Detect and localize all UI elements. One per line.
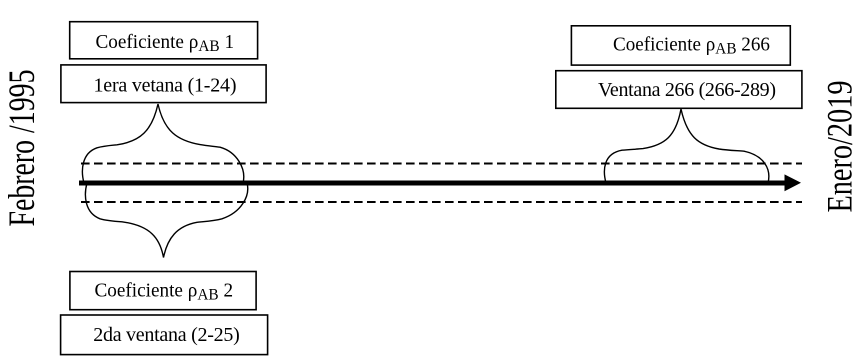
label Coeficiente rho_AB 1 [96,32,235,55]
brace upper-left [82,104,243,183]
box 1era vetana (1-24) [61,65,266,103]
arrowhead [785,174,802,191]
label Coeficiente rho_AB 2 [95,280,234,303]
svg-text:Coeficiente ρAB 266: Coeficiente ρAB 266 [613,34,770,57]
dashed line upper [81,163,802,165]
timeline arrow [79,181,786,186]
brace right [604,109,768,183]
box Ventana 266 (266-289) [556,71,802,109]
box Coeficiente rho_AB 2 [70,272,256,310]
svg-text:Ventana 266 (266-289): Ventana 266 (266-289) [598,79,776,101]
dashed line lower [81,201,802,203]
box Coeficiente rho_AB 1 [70,22,258,59]
svg-text:Febrero /1995: Febrero /1995 [2,70,43,227]
svg-text:1era vetana (1-24): 1era vetana (1-24) [94,74,237,96]
box Coeficiente rho_AB 266 [571,26,790,65]
label Coeficiente rho_AB 266 [613,34,770,57]
svg-text:2da ventana (2-25): 2da ventana (2-25) [93,324,240,346]
brace lower-left [85,183,247,258]
svg-text:Enero/2019: Enero/2019 [820,81,855,213]
box 2da ventana (2-25) [61,315,268,355]
